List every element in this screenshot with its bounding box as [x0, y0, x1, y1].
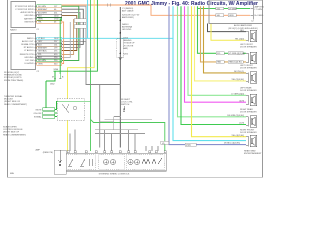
svg-text:GRY/BLK: GRY/BLK [38, 50, 47, 52]
wire C1 row1 grey branch [62, 6, 87, 41]
svg-text:BLK: BLK [38, 15, 42, 17]
svg-text:BLK: BLK [240, 30, 244, 32]
3-row small connector [34, 101, 91, 119]
orange wire B+ to amp [62, 5, 251, 15]
svg-text:RT FRNT DR SPKR: RT FRNT DR SPKR [15, 6, 34, 8]
svg-text:REMOTE RTN: REMOTE RTN [20, 54, 34, 56]
svg-text:GROUND: GROUND [24, 57, 34, 59]
wire slate blue to S6 lower [169, 6, 246, 144]
svg-text:DK YEL (1): DK YEL (1) [234, 71, 244, 73]
svg-text:AMP: AMP [35, 149, 40, 152]
wire C1 row1 green to C2 dk grn row [62, 6, 79, 60]
svg-text:DOOR SPEAKER: DOOR SPEAKER [240, 45, 257, 48]
svg-text:IGNITION: IGNITION [24, 22, 34, 24]
big bottom box [63, 153, 166, 171]
svg-text:BLK/WHT: BLK/WHT [38, 12, 48, 14]
wire green to amp and S2 upper [198, 6, 247, 53]
svg-text:LT AUDIO: LT AUDIO [24, 49, 34, 52]
cyan from top [87, 0, 89, 38]
svg-text:LT FRNT DR SPKR: LT FRNT DR SPKR [15, 9, 34, 11]
C1 pin stubs [35, 6, 37, 63]
svg-text:LIGHTER: LIGHTER [24, 63, 34, 65]
svg-text:LT GRN: LT GRN [255, 9, 263, 11]
wire C2 row6 riser [62, 19, 74, 54]
svg-text:YEL (2)(4) EQ: YEL (2)(4) EQ [231, 79, 244, 81]
dashed module box [57, 99, 84, 121]
pins on top [67, 151, 166, 153]
wire C1 row6 orange down [62, 22, 64, 64]
svg-text:(4): (4) [162, 143, 165, 145]
svg-text:BLK: BLK [38, 57, 42, 59]
speaker S4 left rear [231, 86, 257, 106]
svg-text:AMPLIFIER): AMPLIFIER) [122, 16, 134, 19]
svg-text:SIGNAL: SIGNAL [34, 116, 42, 119]
svg-text:ORN: ORN [38, 63, 43, 65]
wire black amp to S1 upper [208, 24, 247, 32]
speaker S5 right rear [227, 108, 257, 134]
svg-text:GROUND: GROUND [122, 29, 132, 31]
C2 wire label rows [37, 37, 62, 65]
svg-text:DOOR SPEAKER: DOOR SPEAKER [240, 131, 257, 134]
circles sub3 [128, 159, 133, 164]
svg-text:B+ FEED: B+ FEED [255, 15, 264, 17]
connector bracket pins [55, 71, 60, 78]
svg-text:RADIO: RADIO [10, 29, 17, 32]
svg-text:DK GRN (2)(4) EQ: DK GRN (2)(4) EQ [227, 115, 244, 117]
svg-text:DK GRN: DK GRN [38, 6, 46, 8]
svg-text:TAN: TAN [217, 61, 221, 64]
svg-text:YEL (2)(4): YEL (2)(4) [235, 38, 244, 40]
svg-text:RADIO: RADIO [122, 23, 129, 26]
grey hook to second dark vertical [86, 41, 120, 147]
wire yellow amp to S1 lower [211, 24, 246, 41]
svg-text:TAN (1)(4) EQ: TAN (1)(4) EQ [229, 61, 242, 64]
svg-text:ANT CABLE: ANT CABLE [122, 10, 134, 13]
speaker S1 left front [235, 30, 257, 49]
wire green down-left to module connector [45, 81, 47, 108]
wire tan to S2 lower [201, 6, 247, 62]
wire C2 row7 riser [62, 22, 71, 57]
wire magenta to S4 lower [185, 6, 247, 102]
svg-text:(4) M: (4) M [239, 101, 244, 103]
yellow from top [68, 0, 95, 151]
wire yellow to S6 upper [192, 6, 247, 136]
cyan wire C2 row1 long [62, 37, 174, 39]
C1 wire label rows [37, 5, 62, 24]
svg-text:GRY: GRY [38, 41, 43, 43]
svg-text:LEFT REAR: LEFT REAR [240, 86, 252, 89]
svg-text:REAR COMPARTMENT): REAR COMPARTMENT) [3, 133, 26, 136]
svg-text:AUDIO OUT: AUDIO OUT [22, 40, 34, 43]
svg-text:AUDIO AMPLIFIER: AUDIO AMPLIFIER [234, 24, 253, 27]
svg-text:FROM PREV PAGE): FROM PREV PAGE) [4, 79, 24, 82]
svg-text:C1 (RADIO): C1 (RADIO) [122, 7, 134, 10]
svg-text:ON-OFF: ON-OFF [34, 113, 43, 115]
wire lt green to S4 upper [188, 6, 246, 95]
speaker S3 left rear [231, 65, 257, 83]
svg-text:YEL (4)(2) EQ: YEL (4)(2) EQ [231, 135, 244, 137]
wire lt green to S5 upper [178, 6, 247, 117]
lt green long down to bottom [91, 0, 165, 153]
svg-text:DOOR SPEAKER: DOOR SPEAKER [240, 89, 257, 92]
amp descender wires to S1 [208, 24, 247, 41]
svg-text:REAR SEAT: REAR SEAT [244, 149, 256, 152]
svg-text:M/A: M/A [10, 172, 14, 175]
svg-text:DOOR SPEAKER: DOOR SPEAKER [240, 67, 257, 70]
wire C1 row3 to C2 row4 [62, 13, 81, 48]
speaker S6 rear seat [161, 135, 262, 155]
radio connector box C1 [11, 2, 40, 32]
sub dashed boxes [66, 155, 96, 170]
grey bus wires [95, 117, 145, 134]
svg-text:RADIO: RADIO [27, 37, 34, 40]
svg-text:TWEETER SIGNAL: TWEETER SIGNAL [4, 95, 23, 98]
green from top to S206 area [54, 0, 98, 71]
svg-text:DK GRN: DK GRN [38, 60, 46, 62]
svg-text:RT AUDIO: RT AUDIO [24, 46, 34, 49]
svg-text:REAR COMPARTMENT): REAR COMPARTMENT) [4, 103, 27, 106]
long mid verticals from top [54, 0, 165, 153]
svg-text:BATTERY: BATTERY [24, 18, 34, 21]
svg-text:AMP RTN: AMP RTN [255, 5, 265, 8]
circles sub2 [103, 159, 108, 164]
svg-text:BLK: BLK [38, 44, 42, 46]
wire dk yellow to S3 upper [204, 6, 247, 73]
svg-text:(1) M: (1) M [239, 123, 244, 125]
wire cyan to S6 mid [173, 6, 246, 140]
svg-text:ENTERTAINMENT: ENTERTAINMENT [244, 152, 262, 155]
svg-text:RIGHT REAR: RIGHT REAR [240, 108, 253, 111]
wire C1 row5 green down-left [60, 19, 61, 74]
svg-text:BRN/WHT: BRN/WHT [38, 9, 48, 11]
svg-text:(2)(4): (2)(4) [186, 144, 191, 146]
black vertical to bottom box [119, 7, 121, 148]
svg-text:DIC DIM: DIC DIM [26, 60, 34, 62]
svg-text:(REMOTE): (REMOTE) [43, 152, 54, 154]
zigzag in sub3 [142, 158, 162, 164]
svg-text:LT GRN: LT GRN [229, 8, 237, 10]
svg-text:LT GRN (4)(1) EQ: LT GRN (4)(1) EQ [229, 53, 245, 55]
svg-text:DK BLU (4)(2) EQ: DK BLU (4)(2) EQ [224, 143, 241, 145]
svg-text:AUDIO MUTE: AUDIO MUTE [20, 11, 34, 14]
svg-text:MUTE: MUTE [36, 110, 43, 112]
svg-text:ANTENNA: ANTENNA [122, 26, 133, 29]
svg-text:SWITCH: SWITCH [121, 104, 130, 106]
svg-text:DOOR SPEAKER: DOOR SPEAKER [240, 111, 257, 114]
svg-text:GROUND: GROUND [24, 15, 34, 17]
svg-text:LT BLU: LT BLU [38, 38, 45, 40]
radio connector box C2 [11, 34, 40, 74]
wire C1 row2 to C2 row3 [62, 9, 84, 44]
svg-text:LT GRN (2)(4): LT GRN (2)(4) [231, 93, 244, 95]
svg-text:SIGNAL RTN: SIGNAL RTN [21, 43, 34, 46]
speaker S2 left front [216, 52, 257, 64]
wire green to S5 lower [181, 6, 246, 124]
wire C1 row4 to C2 row5 [62, 16, 77, 51]
switches in sub1 [68, 159, 85, 166]
wire yellow to S3 lower [195, 6, 247, 81]
inline connectors on vertical wires [74, 19, 86, 28]
svg-text:STEERING WHEEL CONTROLS: STEERING WHEEL CONTROLS [99, 173, 130, 175]
svg-text:ORN: ORN [229, 15, 234, 17]
svg-text:ORN: ORN [38, 19, 43, 21]
svg-text:BRN/WHT: BRN/WHT [38, 47, 48, 49]
